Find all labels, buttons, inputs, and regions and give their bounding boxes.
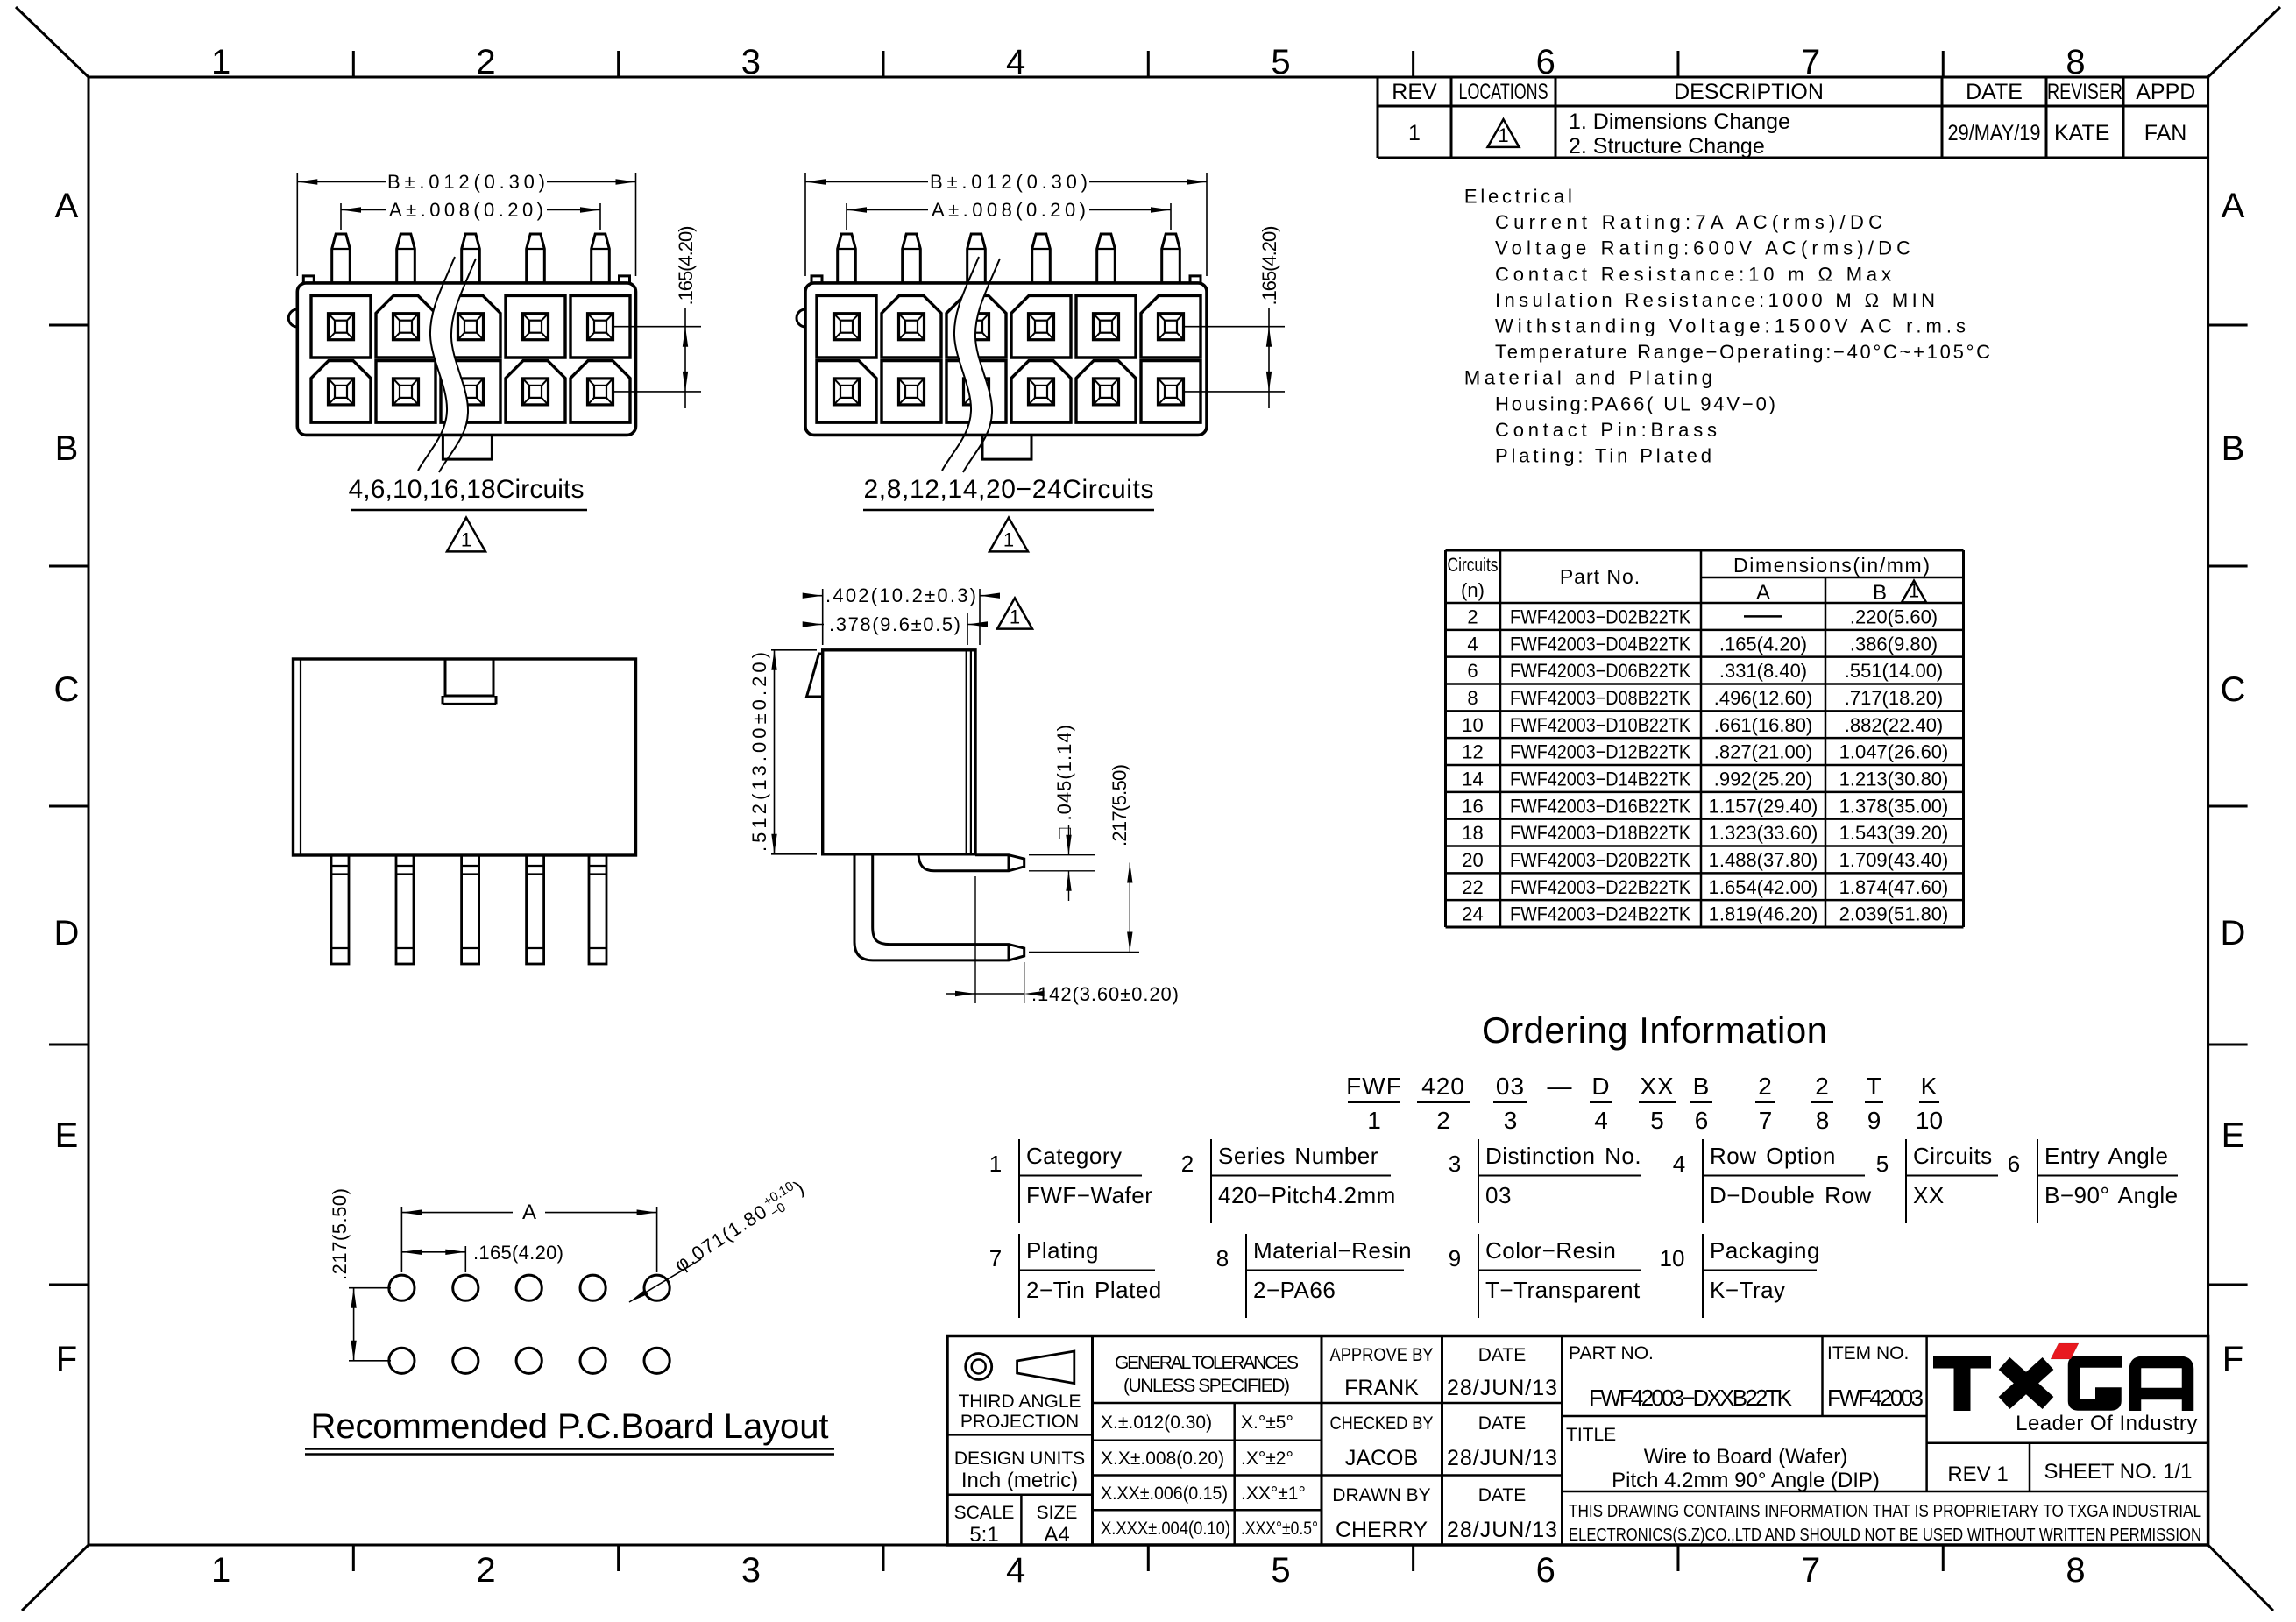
svg-text:XX: XX: [1913, 1182, 1945, 1208]
svg-text:B: B: [1873, 581, 1887, 605]
svg-text:03: 03: [1496, 1073, 1525, 1100]
svg-text:.165(4.20): .165(4.20): [1719, 633, 1807, 655]
svg-text:7: 7: [1801, 1551, 1820, 1590]
svg-text:2: 2: [476, 43, 495, 81]
svg-text:10: 10: [1916, 1107, 1943, 1134]
svg-text:.165(4.20): .165(4.20): [675, 226, 697, 306]
svg-text:8: 8: [2066, 1551, 2085, 1590]
svg-text:28/JUN/13: 28/JUN/13: [1447, 1376, 1557, 1400]
svg-text:10: 10: [1660, 1245, 1685, 1271]
svg-text:8: 8: [1816, 1107, 1830, 1134]
svg-text:.717(18.20): .717(18.20): [1845, 687, 1944, 709]
svg-text:APPD: APPD: [2136, 80, 2195, 104]
svg-text:DRAWN BY: DRAWN BY: [1332, 1485, 1430, 1505]
svg-text:Circuits: Circuits: [1448, 554, 1499, 576]
svg-text:1: 1: [1003, 528, 1014, 550]
svg-text:1: 1: [211, 1551, 230, 1590]
svg-text:6: 6: [1467, 660, 1478, 682]
svg-text:Series Number: Series Number: [1218, 1143, 1378, 1169]
svg-text:22: 22: [1462, 876, 1483, 898]
svg-text:Recommended P.C.Board Layout: Recommended P.C.Board Layout: [311, 1407, 829, 1446]
svg-text:1. Dimensions Change: 1. Dimensions Change: [1569, 110, 1790, 134]
svg-text:FWF42003−D08B22TK: FWF42003−D08B22TK: [1510, 687, 1690, 709]
svg-text:4: 4: [1467, 633, 1478, 655]
svg-text:8: 8: [1467, 687, 1478, 709]
svg-text:FWF42003−D02B22TK: FWF42003−D02B22TK: [1510, 606, 1690, 627]
svg-text:2: 2: [476, 1551, 495, 1590]
svg-text:KATE: KATE: [2054, 121, 2109, 145]
svg-text:Electrical: Electrical: [1464, 186, 1572, 208]
svg-text:X.XX±.006(0.15): X.XX±.006(0.15): [1101, 1484, 1228, 1504]
svg-text:—: —: [1548, 1073, 1573, 1100]
svg-text:FWF42003−D20B22TK: FWF42003−D20B22TK: [1510, 849, 1690, 871]
svg-text:4: 4: [1673, 1151, 1685, 1177]
svg-text:B: B: [1693, 1073, 1711, 1100]
svg-text:D: D: [2221, 914, 2246, 953]
svg-text:.402(10.2±0.3): .402(10.2±0.3): [826, 584, 976, 606]
svg-text:Circuits: Circuits: [1913, 1143, 1993, 1169]
svg-text:.992(25.20): .992(25.20): [1714, 768, 1813, 790]
svg-text:A: A: [1756, 581, 1770, 605]
svg-text:1.488(37.80): 1.488(37.80): [1709, 849, 1818, 871]
svg-text:1: 1: [989, 1151, 1002, 1177]
svg-text:.217(5.50): .217(5.50): [1109, 764, 1130, 846]
svg-text:2.039(51.80): 2.039(51.80): [1839, 903, 1949, 925]
svg-text:.165(4.20): .165(4.20): [473, 1242, 563, 1264]
svg-text:1.323(33.60): 1.323(33.60): [1709, 822, 1818, 844]
svg-text:1.213(30.80): 1.213(30.80): [1839, 768, 1949, 790]
svg-text:FWF42003−D14B22TK: FWF42003−D14B22TK: [1510, 768, 1690, 790]
svg-text:4: 4: [1006, 43, 1025, 81]
svg-text:(n): (n): [1461, 579, 1485, 601]
svg-text:3: 3: [1504, 1107, 1518, 1134]
svg-text:2: 2: [1467, 606, 1478, 627]
svg-text:5: 5: [1271, 43, 1290, 81]
svg-text:D: D: [54, 914, 80, 953]
svg-text:1: 1: [1010, 606, 1020, 628]
svg-text:SHEET NO. 1/1: SHEET NO. 1/1: [2044, 1460, 2193, 1484]
svg-text:2. Structure Change: 2. Structure Change: [1569, 134, 1765, 159]
svg-text:1: 1: [1909, 579, 1919, 601]
svg-text:1.047(26.60): 1.047(26.60): [1839, 741, 1949, 763]
svg-text:JACOB: JACOB: [1345, 1446, 1418, 1470]
svg-text:12: 12: [1462, 741, 1483, 763]
svg-text:K: K: [1921, 1073, 1938, 1100]
svg-text:.XXX°±0.5°: .XXX°±0.5°: [1241, 1519, 1318, 1539]
svg-text:X.X±.008(0.20): X.X±.008(0.20): [1101, 1448, 1224, 1469]
svg-text:Ordering Information: Ordering Information: [1482, 1009, 1827, 1051]
svg-text:Entry Angle: Entry Angle: [2044, 1143, 2168, 1169]
svg-text:420: 420: [1421, 1073, 1465, 1100]
svg-text:18: 18: [1462, 822, 1483, 844]
svg-text:FWF42003−D04B22TK: FWF42003−D04B22TK: [1510, 633, 1690, 655]
svg-text:6: 6: [1536, 1551, 1555, 1590]
svg-text:420−Pitch4.2mm: 420−Pitch4.2mm: [1218, 1182, 1396, 1208]
svg-text:PROJECTION: PROJECTION: [960, 1412, 1079, 1432]
svg-text:.142(3.60±0.20): .142(3.60±0.20): [1031, 983, 1179, 1005]
svg-text:.331(8.40): .331(8.40): [1719, 660, 1807, 682]
svg-text:K−Tray: K−Tray: [1710, 1277, 1786, 1303]
svg-text:1.654(42.00): 1.654(42.00): [1709, 876, 1818, 898]
svg-text:DESCRIPTION: DESCRIPTION: [1674, 80, 1824, 104]
svg-text:8: 8: [1216, 1245, 1229, 1271]
svg-text:.827(21.00): .827(21.00): [1714, 741, 1813, 763]
svg-text:16: 16: [1462, 795, 1483, 817]
svg-text:DESIGN UNITS: DESIGN UNITS: [954, 1448, 1085, 1469]
svg-text:24: 24: [1462, 903, 1483, 925]
svg-text:.512(13.00±0.20): .512(13.00±0.20): [748, 652, 770, 852]
svg-text:X.°±5°: X.°±5°: [1241, 1413, 1293, 1433]
svg-text:SIZE: SIZE: [1037, 1503, 1078, 1523]
svg-text:2,8,12,14,20−24Circuits: 2,8,12,14,20−24Circuits: [864, 475, 1154, 504]
svg-text:DATE: DATE: [1966, 80, 2023, 104]
svg-text:REV: REV: [1392, 80, 1437, 104]
svg-text:C: C: [54, 670, 80, 709]
svg-text:DATE: DATE: [1478, 1345, 1526, 1365]
svg-text:2: 2: [1758, 1073, 1773, 1100]
svg-text:XX: XX: [1640, 1073, 1674, 1100]
svg-text:1.543(39.20): 1.543(39.20): [1839, 822, 1949, 844]
svg-text:5: 5: [1650, 1107, 1664, 1134]
svg-text:□ .045(1.14): □ .045(1.14): [1053, 725, 1075, 839]
svg-text:DATE: DATE: [1478, 1485, 1526, 1505]
svg-text:Distinction No.: Distinction No.: [1485, 1143, 1641, 1169]
svg-text:3: 3: [741, 43, 761, 81]
svg-text:A: A: [522, 1201, 536, 1224]
svg-text:Wire to Board (Wafer): Wire to Board (Wafer): [1644, 1445, 1848, 1469]
svg-text:2−PA66: 2−PA66: [1253, 1277, 1336, 1303]
svg-text:Color−Resin: Color−Resin: [1485, 1237, 1616, 1264]
svg-text:1.157(29.40): 1.157(29.40): [1709, 795, 1818, 817]
svg-text:.496(12.60): .496(12.60): [1714, 687, 1813, 709]
svg-text:ELECTRONICS(S.Z)CO.,LTD AND SH: ELECTRONICS(S.Z)CO.,LTD AND SHOULD NOT B…: [1569, 1525, 2201, 1545]
svg-text:F: F: [2222, 1340, 2243, 1378]
svg-text:Inch (metric): Inch (metric): [961, 1469, 1078, 1492]
svg-text:Leader Of Industry: Leader Of Industry: [2016, 1412, 2198, 1435]
svg-text:6: 6: [2008, 1151, 2020, 1177]
svg-text:FRANK: FRANK: [1344, 1376, 1419, 1400]
svg-text:.551(14.00): .551(14.00): [1845, 660, 1944, 682]
svg-text:2: 2: [1815, 1073, 1830, 1100]
svg-text:2−Tin Plated: 2−Tin Plated: [1026, 1277, 1162, 1303]
svg-text:.882(22.40): .882(22.40): [1845, 714, 1944, 736]
svg-text:Part No.: Part No.: [1560, 565, 1641, 588]
svg-text:C: C: [2221, 670, 2246, 709]
svg-text:3: 3: [1449, 1151, 1461, 1177]
svg-text:28/JUN/13: 28/JUN/13: [1447, 1446, 1557, 1470]
svg-text:A: A: [2222, 187, 2245, 225]
svg-text:7: 7: [1801, 43, 1820, 81]
svg-text:T−Transparent: T−Transparent: [1485, 1277, 1641, 1303]
svg-text:4,6,10,16,18Circuits: 4,6,10,16,18Circuits: [349, 475, 585, 504]
svg-text:REVISER: REVISER: [2047, 80, 2122, 104]
svg-text:8: 8: [2066, 43, 2085, 81]
svg-text:.661(16.80): .661(16.80): [1714, 714, 1813, 736]
svg-text:T: T: [1866, 1073, 1881, 1100]
svg-text:9: 9: [1449, 1245, 1461, 1271]
svg-text:1.709(43.40): 1.709(43.40): [1839, 849, 1949, 871]
svg-text:A: A: [55, 187, 79, 225]
svg-text:1: 1: [461, 528, 471, 550]
svg-text:FWF−Wafer: FWF−Wafer: [1026, 1182, 1152, 1208]
svg-text:TITLE: TITLE: [1566, 1425, 1616, 1445]
svg-text:1: 1: [1367, 1107, 1381, 1134]
svg-text:D: D: [1591, 1073, 1610, 1100]
svg-text:Housing:PA66( UL 94V−0): Housing:PA66( UL 94V−0): [1495, 393, 1775, 414]
svg-text:03: 03: [1485, 1182, 1512, 1208]
svg-text:Packaging: Packaging: [1710, 1237, 1820, 1264]
svg-text:29/MAY/19: 29/MAY/19: [1948, 121, 2041, 145]
svg-text:Pitch 4.2mm 90° Angle (DIP): Pitch 4.2mm 90° Angle (DIP): [1612, 1469, 1880, 1492]
svg-text:FWF42003−D18B22TK: FWF42003−D18B22TK: [1510, 822, 1690, 844]
svg-text:6: 6: [1695, 1107, 1709, 1134]
svg-text:B: B: [2222, 429, 2245, 468]
svg-text:.217(5.50): .217(5.50): [329, 1188, 351, 1280]
svg-text:FWF42003−D16B22TK: FWF42003−D16B22TK: [1510, 795, 1690, 817]
svg-text:28/JUN/13: 28/JUN/13: [1447, 1518, 1557, 1542]
svg-text:2: 2: [1181, 1151, 1194, 1177]
svg-text:1.819(46.20): 1.819(46.20): [1709, 903, 1818, 925]
svg-text:F: F: [56, 1340, 77, 1378]
svg-text:Dimensions(in/mm): Dimensions(in/mm): [1733, 554, 1930, 577]
svg-text:1.874(47.60): 1.874(47.60): [1839, 876, 1949, 898]
svg-text:9: 9: [1867, 1107, 1881, 1134]
svg-text:3: 3: [741, 1551, 761, 1590]
svg-text:SCALE: SCALE: [954, 1503, 1015, 1523]
svg-text:.165(4.20): .165(4.20): [1258, 226, 1280, 306]
svg-text:.220(5.60): .220(5.60): [1850, 606, 1938, 627]
svg-text:1: 1: [1408, 121, 1421, 145]
svg-text:7: 7: [1759, 1107, 1773, 1134]
svg-text:4: 4: [1006, 1551, 1025, 1590]
svg-text:Plating: Plating: [1026, 1237, 1099, 1264]
svg-text:Plating: Tin Plated: Plating: Tin Plated: [1495, 445, 1711, 467]
svg-text:7: 7: [989, 1245, 1002, 1271]
svg-text:FWF42003−D06B22TK: FWF42003−D06B22TK: [1510, 660, 1690, 682]
svg-text:FWF: FWF: [1346, 1073, 1402, 1100]
svg-text:2: 2: [1436, 1107, 1450, 1134]
svg-text:FWF42003: FWF42003: [1827, 1385, 1924, 1411]
svg-text:14: 14: [1462, 768, 1483, 790]
svg-text:B−90° Angle: B−90° Angle: [2044, 1182, 2179, 1208]
svg-text:FWF42003−DXXB22TK: FWF42003−DXXB22TK: [1589, 1385, 1793, 1411]
svg-text:X.±.012(0.30): X.±.012(0.30): [1101, 1413, 1212, 1433]
svg-text:10: 10: [1462, 714, 1483, 736]
svg-text:5: 5: [1271, 1551, 1290, 1590]
svg-text:Category: Category: [1026, 1143, 1123, 1169]
svg-text:E: E: [55, 1116, 79, 1155]
svg-text:THIRD ANGLE: THIRD ANGLE: [958, 1392, 1081, 1412]
svg-text:THIS DRAWING CONTAINS INFORMAT: THIS DRAWING CONTAINS INFORMATION THAT I…: [1569, 1501, 2201, 1521]
svg-text:20: 20: [1462, 849, 1483, 871]
svg-text:B: B: [55, 429, 79, 468]
svg-text:FWF42003−D12B22TK: FWF42003−D12B22TK: [1510, 741, 1690, 763]
svg-text:GENERAL TOLERANCES: GENERAL TOLERANCES: [1115, 1353, 1299, 1373]
svg-text:CHERRY: CHERRY: [1336, 1518, 1428, 1542]
svg-text:PART NO.: PART NO.: [1569, 1343, 1654, 1363]
svg-text:1.378(35.00): 1.378(35.00): [1839, 795, 1949, 817]
svg-text:(UNLESS SPECIFIED): (UNLESS SPECIFIED): [1123, 1376, 1290, 1396]
svg-text:FWF42003−D10B22TK: FWF42003−D10B22TK: [1510, 714, 1690, 736]
svg-text:CHECKED BY: CHECKED BY: [1330, 1413, 1434, 1434]
svg-text:APPROVE BY: APPROVE BY: [1330, 1345, 1434, 1365]
svg-text:X.XXX±.004(0.10): X.XXX±.004(0.10): [1101, 1519, 1230, 1539]
svg-text:5:1: 5:1: [969, 1523, 998, 1547]
svg-text:FWF42003−D22B22TK: FWF42003−D22B22TK: [1510, 876, 1690, 898]
svg-text:6: 6: [1536, 43, 1555, 81]
svg-text:Temperature Range−Operating:−: Temperature Range−Operating:−40°C~+105°C: [1495, 341, 1990, 363]
svg-text:LOCATIONS: LOCATIONS: [1459, 80, 1548, 104]
svg-text:.386(9.80): .386(9.80): [1850, 633, 1938, 655]
svg-text:1: 1: [211, 43, 230, 81]
svg-text:Row Option: Row Option: [1710, 1143, 1836, 1169]
svg-text:DATE: DATE: [1478, 1413, 1526, 1434]
svg-text:FWF42003−D24B22TK: FWF42003−D24B22TK: [1510, 903, 1690, 925]
svg-text:REV 1: REV 1: [1947, 1463, 2008, 1486]
svg-text:5: 5: [1876, 1151, 1889, 1177]
svg-text:Material−Resin: Material−Resin: [1253, 1237, 1412, 1264]
svg-text:.XX°±1°: .XX°±1°: [1241, 1484, 1306, 1504]
svg-text:ITEM NO.: ITEM NO.: [1827, 1343, 1909, 1363]
svg-text:D−Double Row: D−Double Row: [1710, 1182, 1872, 1208]
svg-text:A4: A4: [1044, 1523, 1069, 1547]
svg-text:E: E: [2222, 1116, 2245, 1155]
svg-text:FAN: FAN: [2144, 121, 2187, 145]
svg-text:1: 1: [1498, 124, 1508, 146]
svg-text:.X°±2°: .X°±2°: [1241, 1448, 1293, 1469]
svg-text:Contact Pin:Brass: Contact Pin:Brass: [1495, 419, 1717, 441]
svg-text:4: 4: [1594, 1107, 1608, 1134]
